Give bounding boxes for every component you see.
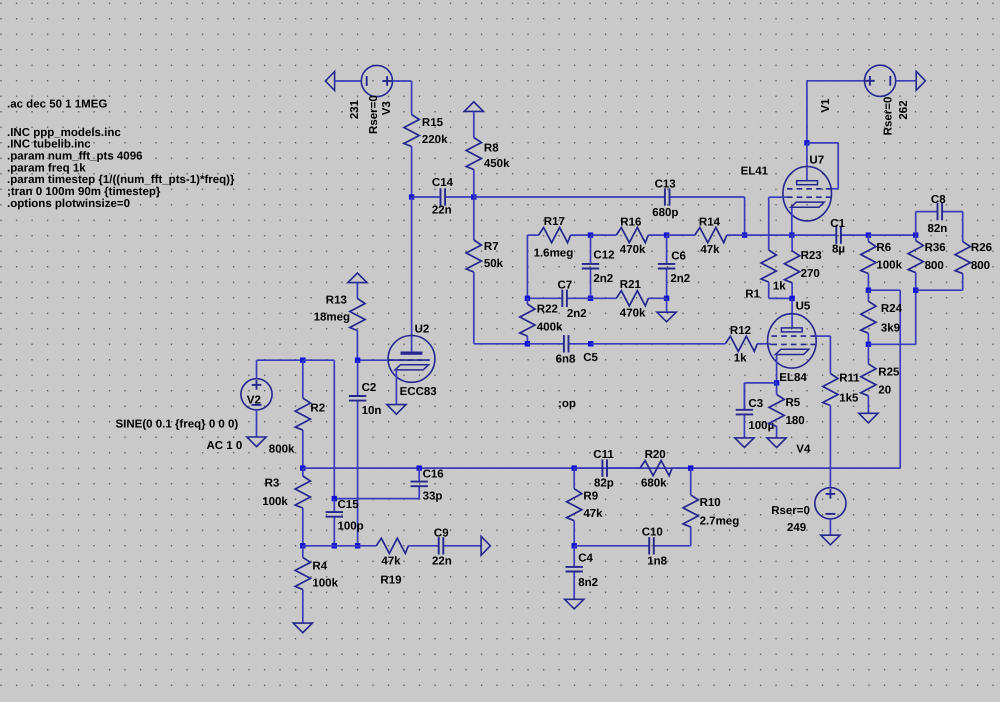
svg-text:1k: 1k — [773, 281, 786, 293]
ground — [821, 535, 840, 545]
ground — [387, 405, 406, 415]
resistor R12 — [724, 343, 725, 345]
wire feedback bus — [303, 467, 900, 469]
svg-text:R5: R5 — [786, 397, 801, 409]
svg-text:EL84: EL84 — [779, 372, 807, 384]
wire cathode — [791, 207, 793, 235]
node junction — [355, 543, 360, 548]
svg-text:3k9: 3k9 — [881, 322, 900, 334]
svg-text:U5: U5 — [796, 300, 811, 312]
wire g1 R1 — [769, 196, 787, 198]
svg-text:R25: R25 — [878, 366, 900, 378]
resistor R19 — [358, 545, 377, 547]
svg-text:C15: C15 — [338, 499, 360, 511]
svg-text:V2: V2 — [247, 394, 261, 406]
svg-text:470k: 470k — [620, 244, 646, 256]
resistor R13 — [356, 283, 358, 299]
svg-text:Rser=0: Rser=0 — [368, 95, 380, 134]
node junction — [300, 543, 305, 548]
node junction — [588, 232, 593, 237]
capacitor C7 — [527, 297, 562, 299]
svg-text:Rser=0: Rser=0 — [771, 505, 810, 517]
node junction — [664, 296, 669, 301]
resistor R5 — [776, 383, 778, 395]
capacitor C5 — [527, 343, 564, 345]
wire — [411, 197, 413, 352]
ground — [767, 438, 786, 448]
node junction — [774, 380, 779, 385]
wire — [806, 81, 808, 143]
svg-text:680k: 680k — [641, 477, 667, 489]
svg-text:;op: ;op — [558, 398, 576, 410]
capacitor C3 — [743, 383, 745, 410]
wire — [744, 382, 776, 384]
capacitor C9 — [438, 545, 440, 547]
svg-text:R12: R12 — [730, 325, 751, 337]
resistor R36 — [915, 235, 917, 241]
svg-text:.param timestep {1/((num_fft_p: .param timestep {1/((num_fft_pts-1)*freq… — [7, 174, 235, 186]
voltage source V2 — [241, 379, 272, 410]
node junction — [588, 296, 593, 301]
node junction — [409, 194, 414, 199]
svg-text:V4: V4 — [796, 443, 811, 455]
node junction — [332, 543, 337, 548]
svg-text:AC 1 0: AC 1 0 — [207, 440, 243, 452]
svg-text:C3: C3 — [748, 398, 763, 410]
svg-text:R2: R2 — [310, 403, 325, 415]
wire g2 loop — [807, 142, 838, 144]
svg-text:2.7meg: 2.7meg — [700, 515, 740, 527]
svg-text:R4: R4 — [312, 561, 327, 573]
triode U2 ECC83 — [388, 336, 435, 383]
svg-text:C16: C16 — [423, 468, 444, 480]
svg-text:180: 180 — [786, 415, 805, 427]
svg-text:249: 249 — [787, 522, 806, 534]
resistor R6 — [867, 235, 869, 241]
node junction — [572, 465, 577, 470]
resistor R17 — [527, 234, 538, 236]
node junction — [866, 288, 871, 293]
svg-text:100p: 100p — [338, 521, 364, 533]
resistor R20 — [609, 467, 640, 469]
capacitor C15 — [333, 499, 335, 512]
wire — [591, 343, 724, 345]
svg-text:C14: C14 — [432, 177, 454, 189]
resistor R22 — [526, 298, 528, 304]
resistor R11 — [829, 372, 831, 375]
svg-text:C7: C7 — [558, 280, 573, 292]
port arrow up R13 — [348, 273, 367, 283]
wire plate — [791, 298, 793, 328]
svg-text:20: 20 — [878, 385, 891, 397]
node junction — [588, 341, 593, 346]
svg-text:V1: V1 — [820, 98, 832, 113]
capacitor C11 — [574, 467, 602, 469]
svg-text:R21: R21 — [620, 279, 642, 291]
wire grid — [358, 359, 389, 361]
pentode U7 EL41 — [783, 167, 832, 221]
resistor R3 — [302, 468, 304, 476]
svg-text:47k: 47k — [381, 555, 401, 567]
svg-text:C10: C10 — [642, 526, 663, 538]
ground — [859, 413, 878, 423]
svg-text:C5: C5 — [583, 352, 598, 364]
voltage source V3 — [361, 65, 392, 96]
svg-text:R9: R9 — [583, 491, 598, 503]
svg-text:47k: 47k — [700, 244, 720, 256]
svg-text:R15: R15 — [422, 117, 444, 129]
wire — [334, 498, 419, 500]
svg-text:18meg: 18meg — [314, 312, 350, 324]
svg-text:231: 231 — [349, 99, 361, 119]
svg-text:100k: 100k — [312, 578, 338, 590]
node junction — [664, 232, 669, 237]
svg-text:22n: 22n — [432, 205, 452, 217]
svg-text:.INC tubelib.inc: .INC tubelib.inc — [7, 139, 91, 151]
node junction — [866, 342, 871, 347]
resistor R10 — [690, 468, 692, 495]
svg-text:.param num_fft_pts 4096: .param num_fft_pts 4096 — [7, 151, 143, 163]
svg-text:R8: R8 — [484, 143, 499, 155]
capacitor C13 — [474, 196, 665, 198]
svg-text:R19: R19 — [380, 575, 401, 587]
svg-text:R24: R24 — [881, 303, 903, 315]
resistor R2 — [302, 360, 304, 398]
voltage source V1 — [865, 65, 896, 96]
wire plate — [806, 143, 808, 181]
capacitor C1 — [792, 234, 836, 236]
resistor R23 — [791, 235, 793, 251]
capacitor C8 — [916, 211, 938, 213]
capacitor C2 — [357, 360, 359, 396]
svg-text:1k5: 1k5 — [839, 392, 859, 404]
svg-text:100k: 100k — [262, 496, 288, 508]
svg-text:R16: R16 — [620, 216, 641, 228]
wire — [303, 359, 335, 361]
svg-text:800k: 800k — [269, 444, 295, 456]
svg-text:C4: C4 — [578, 553, 593, 565]
resistor R8 — [473, 111, 475, 137]
wire bus — [868, 234, 915, 236]
svg-text:C12: C12 — [593, 250, 614, 262]
svg-text:220k: 220k — [422, 134, 448, 146]
svg-text:400k: 400k — [537, 321, 563, 333]
wire — [896, 80, 915, 82]
wire — [474, 343, 528, 345]
svg-text:R26: R26 — [971, 242, 992, 254]
wire — [526, 235, 528, 298]
resistor R1 — [768, 248, 770, 250]
wire — [393, 80, 412, 82]
node junction — [866, 232, 871, 237]
svg-text:R17: R17 — [544, 216, 565, 228]
resistor R15 — [411, 81, 413, 115]
svg-text:R10: R10 — [700, 497, 721, 509]
svg-text:2n2: 2n2 — [593, 273, 613, 285]
svg-text:C1: C1 — [830, 218, 845, 230]
svg-text:R13: R13 — [326, 294, 347, 306]
svg-text:R1: R1 — [745, 288, 760, 300]
wire — [868, 343, 915, 345]
capacitor C16 — [418, 468, 420, 482]
svg-text:800: 800 — [971, 260, 990, 272]
resistor R25 — [867, 344, 869, 364]
svg-text:R14: R14 — [699, 216, 721, 228]
pentode U5 EL84 — [768, 314, 817, 368]
ground — [247, 437, 266, 447]
svg-text:450k: 450k — [484, 158, 510, 170]
node junction — [789, 232, 794, 237]
node junction — [913, 288, 918, 293]
svg-text:680p: 680p — [652, 207, 678, 219]
wire cathode — [776, 355, 778, 383]
svg-text:U2: U2 — [415, 323, 430, 335]
svg-text:10n: 10n — [362, 405, 382, 417]
capacitor C10 — [574, 545, 649, 547]
svg-text:V3: V3 — [381, 101, 393, 115]
svg-text:33p: 33p — [423, 491, 443, 503]
node junction — [525, 296, 530, 301]
wire — [915, 212, 917, 236]
resistor R24 — [867, 290, 869, 301]
node junction — [789, 296, 794, 301]
node junction — [525, 341, 530, 346]
svg-text:R3: R3 — [265, 477, 280, 489]
svg-text:22n: 22n — [432, 555, 452, 567]
node junction — [300, 465, 305, 470]
port arrow up R8 — [464, 102, 483, 112]
node junction — [332, 496, 337, 501]
wire — [256, 410, 258, 437]
svg-text:800: 800 — [925, 260, 944, 272]
resistor R14 — [667, 234, 695, 236]
svg-text:47k: 47k — [583, 508, 603, 520]
svg-text:R22: R22 — [537, 303, 558, 315]
resistor R16 — [591, 234, 617, 236]
wire g2 — [815, 335, 830, 337]
svg-text:8n2: 8n2 — [578, 577, 598, 589]
ground — [293, 623, 312, 633]
svg-text:82p: 82p — [594, 477, 614, 489]
svg-text:R23: R23 — [801, 250, 822, 262]
port arrow input V3 — [325, 72, 334, 91]
svg-text:EL41: EL41 — [741, 165, 769, 177]
wire — [768, 284, 770, 298]
wire bus — [745, 234, 792, 236]
svg-text:470k: 470k — [620, 308, 646, 320]
svg-text:100k: 100k — [876, 260, 902, 272]
wire — [868, 289, 900, 291]
svg-text:R11: R11 — [839, 373, 860, 385]
svg-text:ECC83: ECC83 — [400, 386, 437, 398]
svg-text:;tran 0 100m 90m {timestep}: ;tran 0 100m 90m {timestep} — [7, 186, 161, 198]
port arrow output V1 — [916, 71, 925, 90]
resistor R9 — [573, 468, 575, 489]
svg-text:C13: C13 — [655, 179, 676, 191]
svg-text:R6: R6 — [876, 242, 891, 254]
node junction — [355, 358, 360, 363]
wire — [666, 298, 668, 312]
wire — [256, 360, 258, 379]
wire — [335, 80, 362, 82]
svg-text:1.6meg: 1.6meg — [534, 247, 574, 259]
svg-text:1k: 1k — [734, 352, 747, 364]
node junction — [742, 232, 747, 237]
wire — [829, 406, 831, 488]
svg-text:50k: 50k — [484, 258, 504, 270]
svg-text:C2: C2 — [362, 382, 377, 394]
svg-text:2n2: 2n2 — [567, 308, 587, 320]
resistor R26 — [962, 241, 964, 243]
svg-text:.INC ppp_models.inc: .INC ppp_models.inc — [7, 127, 121, 139]
svg-text:R7: R7 — [484, 241, 499, 253]
node junction — [300, 358, 305, 363]
svg-text:262: 262 — [898, 100, 910, 119]
port arrow output C9 — [481, 536, 490, 555]
wire — [302, 601, 304, 623]
wire cathode to ground — [395, 370, 397, 405]
svg-text:8µ: 8µ — [832, 243, 845, 255]
node junction — [417, 465, 422, 470]
svg-text:82n: 82n — [928, 223, 948, 235]
wire bottom row — [303, 545, 358, 547]
svg-text:270: 270 — [801, 268, 820, 280]
ground — [735, 438, 754, 448]
node junction — [688, 465, 693, 470]
resistor R21 — [591, 297, 617, 299]
wire g1 — [769, 343, 772, 346]
svg-text:1n8: 1n8 — [647, 555, 667, 567]
ground — [657, 312, 676, 322]
svg-text:C6: C6 — [671, 250, 686, 262]
node junction — [572, 543, 577, 548]
svg-text:Rser=0: Rser=0 — [883, 97, 895, 136]
svg-text:.param freq 1k: .param freq 1k — [7, 162, 86, 174]
wire — [744, 197, 746, 235]
svg-text:.options plotwinsize=0: .options plotwinsize=0 — [7, 198, 130, 210]
wire — [962, 212, 964, 242]
ground — [565, 599, 584, 609]
svg-text:C9: C9 — [434, 528, 449, 540]
voltage source V4 — [815, 488, 846, 519]
capacitor C6 — [666, 235, 668, 264]
svg-text:R36: R36 — [925, 242, 946, 254]
resistor R7 — [473, 197, 475, 240]
capacitor C12 — [590, 235, 592, 264]
svg-text:6n8: 6n8 — [556, 354, 576, 366]
svg-text:C11: C11 — [593, 449, 614, 461]
svg-text:.ac dec 50 1 1MEG: .ac dec 50 1 1MEG — [7, 99, 107, 111]
svg-text:SINE(0 0.1 {freq} 0 0 0): SINE(0 0.1 {freq} 0 0 0) — [116, 418, 239, 430]
capacitor C4 — [573, 546, 575, 567]
svg-text:R20: R20 — [645, 449, 666, 461]
node junction — [471, 194, 476, 199]
capacitor C14 — [412, 196, 441, 198]
resistor R4 — [302, 546, 304, 558]
wire — [916, 289, 963, 291]
node junction — [913, 232, 918, 237]
node junction — [804, 140, 809, 145]
svg-text:2n2: 2n2 — [670, 273, 690, 285]
wire — [829, 519, 831, 535]
svg-text:C8: C8 — [931, 194, 946, 206]
svg-text:U7: U7 — [809, 154, 824, 166]
